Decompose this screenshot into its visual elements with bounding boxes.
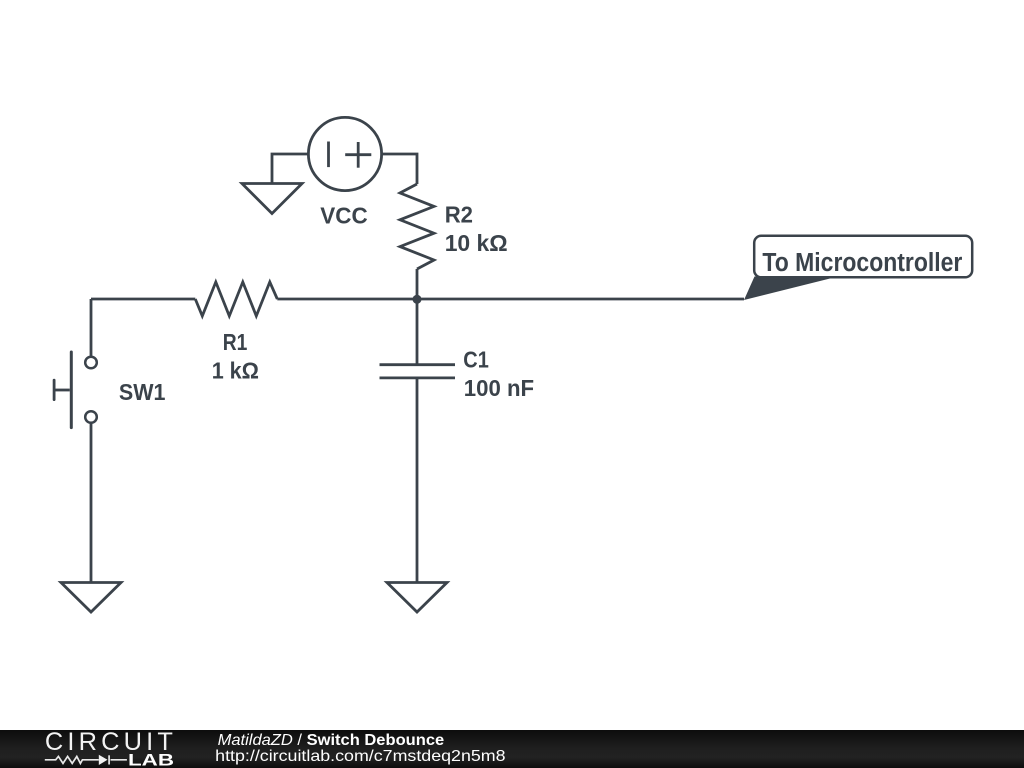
node junction [413, 295, 422, 304]
wire [91, 298, 195, 301]
svg-text:R2: R2 [445, 202, 473, 228]
resistor R2 [400, 184, 434, 269]
svg-text:1 kΩ: 1 kΩ [212, 358, 259, 384]
wire [416, 378, 419, 583]
ground [242, 184, 302, 214]
svg-text:http://circuitlab.com/c7mstdeq: http://circuitlab.com/c7mstdeq2n5m8 [215, 747, 505, 765]
resistor R1 [195, 282, 277, 316]
CircuitLab logo [45, 728, 174, 768]
svg-text:C1: C1 [463, 347, 489, 373]
wire [417, 298, 744, 301]
wire [90, 423, 93, 582]
switch SW1 [54, 352, 97, 428]
svg-text:SW1: SW1 [119, 379, 165, 405]
wire [382, 154, 417, 184]
voltage source V1 [308, 117, 381, 190]
svg-text:R1: R1 [223, 329, 248, 355]
footer bar [0, 730, 1024, 768]
svg-text:100 nF: 100 nF [464, 375, 534, 401]
svg-text:To Microcontroller: To Microcontroller [762, 249, 962, 277]
ground [61, 583, 121, 613]
wire [272, 154, 308, 184]
flag To Microcontroller [744, 236, 972, 300]
capacitor C1 [380, 365, 456, 378]
wire [90, 299, 93, 356]
ground [387, 583, 447, 613]
wire [416, 269, 419, 299]
svg-text:10 kΩ: 10 kΩ [445, 230, 508, 256]
svg-text:VCC: VCC [320, 203, 367, 229]
wire [277, 298, 417, 301]
svg-text:LAB: LAB [128, 751, 174, 768]
wire [416, 299, 419, 365]
